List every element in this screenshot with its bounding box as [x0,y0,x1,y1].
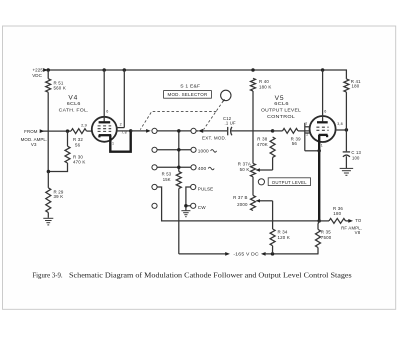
svg-text:EXT. MOD.: EXT. MOD. [202,136,227,141]
svg-text:7,8: 7,8 [121,131,127,135]
svg-text:6CL6: 6CL6 [67,101,81,106]
svg-text:VDC: VDC [32,73,42,78]
svg-text:1: 1 [321,144,323,148]
svg-text:1000: 1000 [198,149,210,154]
svg-text:560 K: 560 K [54,86,66,91]
svg-text:C 13: C 13 [351,150,361,155]
svg-text:6: 6 [324,109,326,113]
svg-text:R 37 B: R 37 B [233,195,248,200]
svg-text:470K: 470K [257,142,268,147]
svg-text:56: 56 [292,141,298,146]
svg-text:S 1 E&F: S 1 E&F [180,83,200,88]
svg-text:7500: 7500 [321,235,332,240]
svg-text:TO: TO [355,218,362,223]
svg-text:470 K: 470 K [73,159,85,164]
svg-text:OUTPUT LEVEL: OUTPUT LEVEL [261,108,301,113]
svg-text:R 37A: R 37A [238,161,251,166]
svg-text:50 K: 50 K [240,167,250,172]
svg-text:2,9: 2,9 [81,123,88,128]
svg-text:R 53: R 53 [162,172,172,177]
svg-text:7: 7 [305,122,307,126]
svg-text:6: 6 [106,109,108,113]
svg-text:100: 100 [352,156,360,161]
svg-text:+225: +225 [32,68,43,73]
svg-text:R 32: R 32 [73,137,83,142]
svg-text:-165 V DC: -165 V DC [233,252,259,257]
svg-text:2000: 2000 [237,202,248,207]
svg-text:56: 56 [75,143,81,148]
svg-text:CONTROL: CONTROL [267,114,295,119]
svg-text:R 34: R 34 [278,229,288,234]
svg-text:120 K: 120 K [278,235,290,240]
svg-text:CW: CW [198,205,206,210]
svg-text:39 K: 39 K [54,194,64,199]
svg-text:400: 400 [198,166,207,171]
svg-text:V3: V3 [31,142,37,147]
svg-text:3,8: 3,8 [337,122,343,126]
svg-text:CATH. FOL.: CATH. FOL. [59,107,89,112]
svg-text:MOD. SELECTOR: MOD. SELECTOR [168,92,208,97]
svg-text:.1 UF: .1 UF [225,120,236,125]
svg-text:V8: V8 [355,230,361,235]
svg-text:Figure 3-9.: Figure 3-9. [32,272,63,279]
svg-text:2: 2 [306,132,308,136]
svg-text:Schematic Diagram of Modulatio: Schematic Diagram of Modulation Cathode … [69,272,352,279]
svg-text:2: 2 [120,122,122,126]
svg-text:6CL6: 6CL6 [274,101,289,106]
svg-text:R 51: R 51 [54,80,64,85]
svg-text:180: 180 [352,84,360,89]
svg-text:R 35: R 35 [321,230,331,235]
svg-text:PULSE: PULSE [198,187,214,192]
svg-text:R 40: R 40 [259,79,269,84]
svg-text:1: 1 [112,142,114,146]
svg-text:FROM: FROM [24,129,38,134]
svg-text:180 K: 180 K [259,85,271,90]
svg-text:OUTPUT LEVEL: OUTPUT LEVEL [272,180,307,185]
svg-text:15K: 15K [163,177,171,182]
svg-text:180: 180 [333,211,341,216]
